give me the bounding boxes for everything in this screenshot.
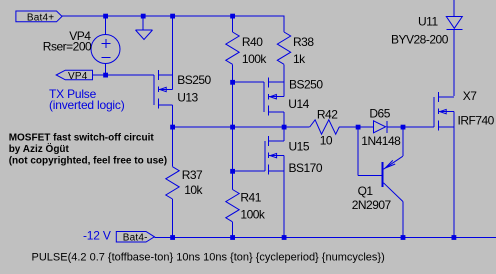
svg-text:100k: 100k <box>240 208 266 222</box>
svg-text:U14: U14 <box>288 97 309 111</box>
wire VP4 flag to junction and U13 gate <box>93 74 154 76</box>
wire U14 drain down to junction <box>283 112 285 141</box>
wire R38 bottom to U14 source <box>283 64 285 82</box>
svg-text:VP4: VP4 <box>68 71 88 82</box>
resistor R41 <box>226 190 239 238</box>
svg-text:(not copyrighted, feel free to: (not copyrighted, feel free to use) <box>9 155 167 166</box>
svg-text:Q1: Q1 <box>358 184 374 198</box>
node junction top rail at ground <box>141 14 146 19</box>
svg-text:100k: 100k <box>242 52 268 66</box>
svg-text:10: 10 <box>320 133 333 147</box>
node junction (358,127) <box>356 125 361 130</box>
svg-text:1N4148: 1N4148 <box>361 134 401 148</box>
svg-text:PULSE(4.2 0.7 {toffbase-ton} 1: PULSE(4.2 0.7 {toffbase-ton} 10ns 10ns {… <box>32 252 385 264</box>
svg-text:BS250: BS250 <box>289 78 323 92</box>
voltage source VP4 <box>91 16 120 75</box>
flag Bat4- <box>116 232 154 243</box>
svg-text:IRF740: IRF740 <box>458 114 495 128</box>
svg-text:R41: R41 <box>240 191 261 205</box>
svg-text:BS250: BS250 <box>177 73 211 87</box>
svg-text:1k: 1k <box>293 52 306 66</box>
svg-text:Bat4-: Bat4- <box>123 232 148 243</box>
svg-text:R40: R40 <box>242 35 263 49</box>
node junction (284,127) <box>282 125 287 130</box>
wire D65 to X7 gate <box>387 126 434 128</box>
svg-text:R38: R38 <box>293 35 314 49</box>
svg-text:U15: U15 <box>289 140 310 154</box>
wire U13 drain down <box>172 105 174 127</box>
svg-text:X7: X7 <box>463 89 478 103</box>
node junction top rail at VP4 column <box>103 14 108 19</box>
flag VP4 <box>56 70 92 80</box>
wire X7 source down to rail <box>453 127 455 237</box>
flag Bat4+ <box>16 11 62 22</box>
transistor U14 BS250 pmos <box>264 77 284 115</box>
svg-text:BYV28-200: BYV28-200 <box>391 33 449 47</box>
diode D65 1N4148 <box>374 121 387 133</box>
svg-text:10k: 10k <box>184 183 203 197</box>
svg-text:Bat4+: Bat4+ <box>27 12 54 23</box>
svg-text:Rser=200: Rser=200 <box>43 39 92 53</box>
transistor X7 IRF740 nmos <box>434 92 454 130</box>
svg-text:D65: D65 <box>369 107 390 121</box>
node junction (232.5,127) <box>230 125 235 130</box>
node junction (172.5,127) <box>170 125 175 130</box>
node junction rail U15 <box>282 235 287 240</box>
wire U11 top <box>453 0 455 17</box>
node junction (232.5,82.2) <box>230 80 235 85</box>
resistor R37 <box>166 127 179 237</box>
svg-text:R42: R42 <box>317 108 338 122</box>
svg-text:-12 V: -12 V <box>83 229 111 243</box>
wire top rail <box>62 16 284 32</box>
wire U15 source down to rail <box>283 171 285 237</box>
svg-text:(inverted logic): (inverted logic) <box>49 98 125 112</box>
wire U11 to X7 drain <box>453 29 455 96</box>
svg-text:U11: U11 <box>418 15 438 29</box>
svg-text:BS170: BS170 <box>289 161 323 175</box>
diode U11 BYV28-200 <box>446 17 462 30</box>
resistor R38 <box>277 32 290 64</box>
node junction rail R41 <box>230 235 235 240</box>
wire U14 gate <box>233 81 264 83</box>
svg-text:MOSFET fast switch-off circuit: MOSFET fast switch-off circuit <box>9 133 155 144</box>
node junction rail X7 <box>452 235 457 240</box>
wire R42 to D65 <box>339 126 373 128</box>
transistor U15 BS170 nmos <box>265 136 284 174</box>
svg-text:by Aziz Ögüt: by Aziz Ögüt <box>9 142 70 155</box>
resistor R42 <box>310 120 340 134</box>
node junction (402.9,127) <box>401 125 406 130</box>
node junction rail Q1 <box>401 235 406 240</box>
svg-text:U13: U13 <box>177 91 198 105</box>
wire U13 source from top rail <box>172 16 174 75</box>
wire bottom rail <box>154 236 496 238</box>
ground <box>136 16 153 40</box>
node junction at VP4 flag <box>103 73 108 78</box>
wire U15 gate <box>233 170 265 172</box>
transistor Q1 2N2907 pnp <box>358 127 403 237</box>
node junction (232.5,171.2) <box>230 169 235 174</box>
node junction top rail at R40 <box>230 14 235 19</box>
resistor R40 <box>226 16 239 64</box>
svg-text:2N2907: 2N2907 <box>352 198 392 212</box>
node junction top rail at U13 source column <box>170 14 175 19</box>
wire R40 bottom / column D <box>232 64 234 189</box>
transistor U13 BS250 pmos <box>154 70 173 108</box>
node junction rail R37 <box>170 235 175 240</box>
wire gate row y127 left <box>173 126 310 128</box>
svg-text:R37: R37 <box>182 168 203 182</box>
